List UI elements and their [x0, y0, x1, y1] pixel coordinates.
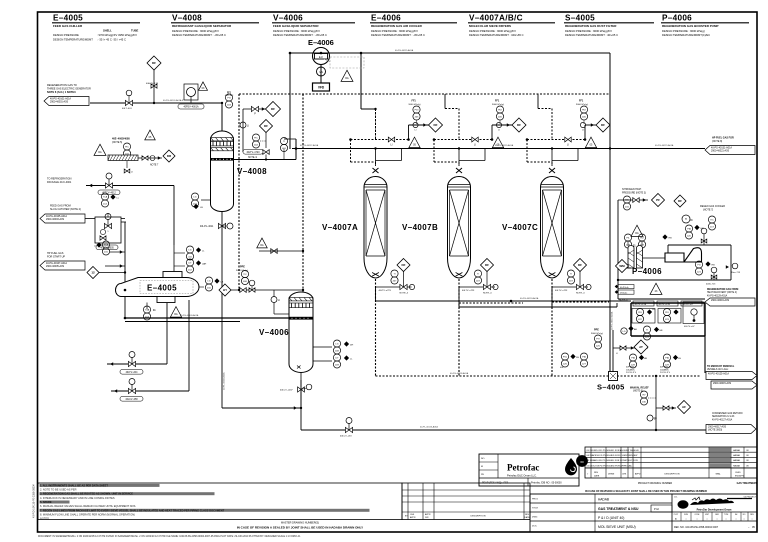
- svg-text:TGA: TGA: [145, 308, 150, 311]
- svg-text:FF1: FF1: [495, 100, 500, 103]
- wire V-4008 overhead riser: [295, 139, 297, 160]
- svg-text:DESIGN TEMPERATURE/MDMT : 34: DESIGN TEMPERATURE/MDMT : 340/+65 C: [469, 33, 524, 37]
- svg-text:REV: REV: [594, 472, 599, 474]
- svg-text:DWG: DWG: [532, 517, 538, 519]
- svg-text:XH: XH: [678, 358, 681, 360]
- svg-text:PDI: PDI: [582, 109, 586, 111]
- svg-text:2900-40015-A0S: 2900-40015-A0S: [713, 382, 731, 385]
- svg-text:XH: XH: [652, 309, 655, 311]
- instrument cluster V–4007C bottom: [574, 259, 587, 272]
- svg-text:NOTED: NOTED: [40, 517, 49, 521]
- svg-text:TCA: TCA: [103, 195, 108, 198]
- svg-text:DA: DA: [174, 313, 178, 316]
- svg-text:FF1: FF1: [579, 100, 584, 103]
- feed inlet stub to E-4005: [124, 289, 127, 292]
- svg-text:NOTE–4: NOTE–4: [483, 293, 492, 295]
- svg-text:E‑F: E‑F: [319, 55, 324, 59]
- svg-text:DF: DF: [264, 124, 268, 128]
- equipment header E-4005: [52, 14, 140, 42]
- wire bottoms cross line: [222, 407, 301, 409]
- svg-text:GAS TREATMENT: GAS TREATMENT: [737, 482, 758, 485]
- svg-text:DF: DF: [485, 263, 489, 267]
- svg-text:PPE: PPE: [240, 266, 245, 269]
- svg-text:PetroDar Development Oman: PetroDar Development Oman: [697, 508, 732, 511]
- svg-text:40LTV–x723: 40LTV–x723: [379, 290, 392, 292]
- svg-text:DOCUMENT: IN SAFEKEEPING/No. 2: DOCUMENT: IN SAFEKEEPING/No. 2 ON 2020/1…: [38, 535, 301, 538]
- svg-text:40-PG-40129-A01A: 40-PG-40129-A01A: [707, 294, 728, 297]
- diamond WM pump: [616, 260, 629, 273]
- node branch to flare diamond: [153, 63, 155, 103]
- svg-text:2900-40021-A0S: 2900-40021-A0S: [711, 150, 729, 153]
- svg-text:PPE: PPE: [594, 329, 599, 332]
- svg-text:DESIGN PRESSURE : 90: DESIGN PRESSURE : 9000 kPa(g)/FV: [371, 29, 418, 33]
- svg-text:40LTV–1720: 40LTV–1720: [247, 152, 261, 154]
- instrument cluster adsorber top: [526, 100, 610, 167]
- svg-text:NO.: NO.: [481, 458, 485, 460]
- svg-text:40PSV–4001A: 40PSV–4001A: [183, 106, 199, 109]
- svg-text:SEPARATOR 2x-V-03: SEPARATOR 2x-V-03: [712, 415, 735, 418]
- wire refrigeration return line: [107, 363, 167, 365]
- svg-text:: 9700 kPa(g)/FV 4950 kPa(g): : 9700 kPa(g)/FV 4950 kPa(g)/FV: [97, 33, 137, 37]
- svg-text:: -35 /+ 45 C -35 / +45 C: : -35 /+ 45 C -35 / +45 C: [97, 37, 126, 41]
- wire V-4008 demister line: [234, 159, 297, 161]
- svg-text:NOTE–4: NOTE–4: [576, 293, 585, 295]
- svg-text:REGENERATION GAS BOOSTER PUMP: REGENERATION GAS BOOSTER PUMP: [662, 24, 718, 28]
- VFD box: [320, 76, 322, 83]
- approval strip table: [402, 483, 530, 520]
- manifold right cell valve: [683, 302, 704, 324]
- V-4006 top inlet valves: [219, 238, 304, 314]
- svg-text:THREE GAS ELECTRIC GENERATOR: THREE GAS ELECTRIC GENERATOR: [47, 88, 91, 91]
- valve V-4006 bottoms: [300, 373, 302, 380]
- svg-text:40LCV–058: 40LCV–058: [125, 399, 138, 401]
- wire condensate header: [301, 429, 706, 431]
- instrument LG on inlet: [621, 328, 627, 334]
- svg-text:HADAB: HADAB: [733, 449, 741, 452]
- svg-text:DH: DH: [350, 345, 354, 347]
- instrument TGA below E-4005: [146, 303, 148, 310]
- instrument pair below TCV: [101, 193, 108, 200]
- Petrofac droplet logo: [565, 458, 577, 475]
- label boxes manifold: [633, 301, 654, 306]
- svg-text:NOTE–5: NOTE–5: [619, 300, 628, 302]
- svg-text:LG: LG: [189, 249, 192, 251]
- svg-text:IN CASE OF REVISION A SEALED B: IN CASE OF REVISION A SEALED BY JOINT SH…: [585, 489, 707, 493]
- svg-text:40LCV–x07: 40LCV–x07: [683, 304, 694, 306]
- valve gauge glass: [240, 122, 246, 128]
- instrument LG bridle V-4006 upper: [313, 346, 332, 348]
- svg-text:2900-40005-A0S: 2900-40005-A0S: [46, 265, 64, 268]
- svg-text:UNIT: UNIT: [705, 514, 709, 516]
- svg-text:40-PG-40127-A01A: 40-PG-40127-A01A: [712, 418, 733, 421]
- instrument cluster adsorber top: [349, 100, 442, 167]
- valve hand valve on inlet: [122, 90, 133, 110]
- svg-text:40-PG-40121-A01A: 40-PG-40121-A01A: [655, 144, 674, 147]
- svg-text:40LTV–x17B: 40LTV–x17B: [659, 304, 671, 306]
- blowdown station cluster: [94, 130, 175, 173]
- svg-text:Petrofac JOB NO : 05-00000: Petrofac JOB NO : 05-00000: [531, 482, 562, 485]
- instrument PIA pump top: [685, 225, 692, 232]
- instrument HIC right riser: [623, 196, 630, 203]
- vessel V–4007A: [364, 168, 387, 278]
- svg-text:HEAT RECOVERY (NOTE 4): HEAT RECOVERY (NOTE 4): [707, 291, 737, 294]
- instrument TI on overhead: [280, 138, 287, 145]
- svg-text:DESIGN TEMPERATURE/MDMT: DESIGN TEMPERATURE/MDMT: [53, 37, 93, 41]
- wire E-4006 outlet header: [290, 52, 610, 54]
- valve overhead isolation: [251, 106, 258, 111]
- equipment header V–4008: [171, 14, 259, 38]
- svg-text:MANUAL RELIEF: MANUAL RELIEF: [630, 387, 649, 390]
- svg-text:CHK: CHK: [622, 474, 627, 476]
- wire traced drop to V-4006: [302, 94, 304, 292]
- vessel V-4006: [289, 292, 313, 373]
- svg-text:40HCV–172: 40HCV–172: [146, 83, 159, 85]
- svg-text:MOL SIEVE UNIT (MSU): MOL SIEVE UNIT (MSU): [598, 525, 636, 529]
- svg-text:PACKAGE 40-K-4001: PACKAGE 40-K-4001: [47, 181, 72, 184]
- svg-text:40xx–713: 40xx–713: [731, 272, 741, 274]
- wire jog to V-4007C feed: [537, 94, 539, 109]
- wire product line to flag: [704, 336, 706, 373]
- svg-text:40-PG-40120-A01A: 40-PG-40120-A01A: [520, 297, 539, 300]
- svg-text:DF: DF: [434, 123, 438, 127]
- svg-text:REFRIGERANT GAS/LIQUID SEPARAT: REFRIGERANT GAS/LIQUID SEPARATOR: [172, 24, 232, 28]
- instrument PIC pair: [252, 134, 259, 141]
- Petrofac title box: [479, 454, 579, 486]
- svg-text:AF: AF: [682, 405, 686, 409]
- wire S-4005 branch: [612, 330, 614, 372]
- vessel V–4007C: [541, 168, 564, 278]
- svg-text:A1: A1: [675, 517, 677, 520]
- svg-text:E–4006: E–4006: [371, 14, 401, 23]
- svg-text:DIR: DIR: [425, 517, 429, 519]
- svg-text:LG: LG: [623, 331, 626, 333]
- svg-text:DA: DA: [345, 77, 349, 80]
- svg-text:GAS TREATMENT & NSU: GAS TREATMENT & NSU: [598, 507, 639, 511]
- svg-text:TCA: TCA: [104, 243, 109, 246]
- svg-text:HADAB: HADAB: [733, 464, 741, 467]
- svg-text:CONDENSED GAS RETURN: CONDENSED GAS RETURN: [712, 412, 743, 415]
- svg-text:FEED GAS/LIQUID SEPARATOR: FEED GAS/LIQUID SEPARATOR: [273, 24, 319, 28]
- svg-text:PDI: PDI: [665, 312, 669, 314]
- svg-text:CHK: CHK: [410, 514, 415, 516]
- svg-text:DF: DF: [578, 263, 582, 267]
- flag second DF diamond: [260, 120, 273, 133]
- svg-text:DESIGN TEMPERATURE/MDMT : 40: DESIGN TEMPERATURE/MDMT : 40/+65 C: [565, 33, 618, 37]
- svg-text:LG: LG: [194, 196, 197, 198]
- title block: [530, 494, 757, 532]
- svg-text:V–4007B: V–4007B: [402, 223, 438, 232]
- svg-text:12: 12: [91, 271, 95, 275]
- svg-text:TUBE: TUBE: [131, 29, 139, 33]
- wire adsorber outlet header 1: [376, 300, 632, 302]
- svg-text:FF1: FF1: [227, 93, 232, 95]
- wire jog to V-4007B feed: [444, 94, 446, 109]
- svg-text:02 03OCT09 FD P5 ISSUED: 02 03OCT09 FD P5 ISSUED FOR APPROVAL: [587, 464, 633, 467]
- svg-text:(NOTE 3000): (NOTE 3000): [708, 429, 722, 432]
- svg-text:40LCV–4011: 40LCV–4011: [200, 226, 214, 228]
- svg-text:101A/B/C: 101A/B/C: [626, 368, 635, 371]
- svg-text:E–4005: E–4005: [53, 14, 83, 23]
- instrument PG discharge: [695, 261, 702, 268]
- svg-text:REF. NO. 104135-PE-2358-00004: REF. NO. 104135-PE-2358-00004 0007: [674, 526, 719, 529]
- svg-text:PRESSURE (NOTE 3): PRESSURE (NOTE 3): [622, 191, 646, 194]
- svg-text:DESIGN PRESSURE : 90: DESIGN PRESSURE : 9000 kPa(g): [662, 29, 705, 33]
- svg-text:PIC: PIC: [125, 146, 129, 148]
- svg-text:V–4008: V–4008: [172, 14, 202, 23]
- wire right main riser: [609, 53, 611, 372]
- svg-text:DF: DF: [152, 61, 156, 65]
- svg-text:9000 kPa(g): 9000 kPa(g): [591, 333, 603, 335]
- line from box to refrig: [121, 221, 126, 223]
- svg-text:TO MERCURY REMOVAL: TO MERCURY REMOVAL: [707, 365, 735, 368]
- svg-text:DESIGN PRESSURE : 90: DESIGN PRESSURE : 9000 kPa(g)/FV: [172, 29, 219, 33]
- instrument LIT bridle V-4006 lower: [313, 360, 332, 362]
- diamond DF near pump: [674, 195, 686, 207]
- discharge check to riser: [726, 265, 729, 269]
- svg-text:DRWN: DRWN: [608, 474, 615, 476]
- svg-text:4006–713: 4006–713: [706, 284, 716, 286]
- notes block: [38, 483, 402, 521]
- svg-text:DESIGN TEMPERATURE/MDMT : -4: DESIGN TEMPERATURE/MDMT : -45/+65 C: [371, 33, 425, 37]
- svg-text:E–4006: E–4006: [308, 38, 334, 47]
- svg-text:2900-40003-A0S: 2900-40003-A0S: [46, 218, 64, 221]
- instrument pair left of E-4005: [102, 241, 109, 248]
- wire to refrigeration package: [86, 185, 174, 187]
- svg-text:ENG APPD: ENG APPD: [735, 475, 745, 478]
- svg-text:HADAB: HADAB: [598, 498, 609, 502]
- svg-text:2OO3–X V: 2OO3–X V: [660, 372, 671, 374]
- PetroDar logo box: [672, 497, 757, 513]
- svg-text:(NOTE 7): (NOTE 7): [703, 208, 713, 211]
- svg-text:40LCV–x33: 40LCV–x33: [340, 436, 352, 438]
- svg-text:V–4006: V–4006: [259, 328, 289, 337]
- wire V-4006 bottoms drop: [300, 380, 302, 430]
- pump P-4006 body: [618, 245, 731, 280]
- svg-text:DESIGN TEMPERATURE/MDMT : -4: DESIGN TEMPERATURE/MDMT : -45/+65 C: [172, 33, 226, 37]
- vessel V–4007B: [448, 168, 471, 278]
- svg-text:HADAB: HADAB: [733, 454, 741, 457]
- svg-text:CO.: CO.: [674, 497, 678, 499]
- valve V-4008 bottoms LCV: [218, 223, 225, 228]
- svg-text:(NOTE 5): (NOTE 5): [112, 141, 122, 144]
- flag N2 diamond: [652, 194, 665, 207]
- svg-text:40-PG-40119-A01A: 40-PG-40119-A01A: [495, 144, 514, 147]
- svg-text:MOLECULAR SIEVE DRYERS: MOLECULAR SIEVE DRYERS: [469, 24, 511, 28]
- svg-text:PG: PG: [227, 97, 230, 99]
- valve refrig supply LCV: [128, 388, 135, 393]
- svg-text:TIC: TIC: [710, 219, 714, 221]
- svg-text:P–4006: P–4006: [632, 267, 662, 276]
- svg-text:40-PG-40122-A01A: 40-PG-40122-A01A: [611, 311, 614, 330]
- svg-text:S–4005: S–4005: [597, 383, 625, 392]
- instrument cluster V–4007B bottom: [481, 259, 494, 272]
- svg-text:REGENERATION GAS DUST FILTER: REGENERATION GAS DUST FILTER: [565, 24, 617, 28]
- instrument TI pair right: [682, 215, 690, 223]
- svg-text:CODE: CODE: [695, 514, 701, 516]
- instrument TI bottom header: [643, 326, 650, 333]
- svg-text:40-PID-104135-PE-2358-00004: 40-PID-104135-PE-2358-00004: [33, 484, 36, 518]
- feed heater box: [95, 217, 121, 243]
- svg-text:40-PG-40117-A01A: 40-PG-40117-A01A: [300, 144, 319, 147]
- svg-text:REV: REV: [525, 514, 530, 516]
- svg-text:XH: XH: [576, 357, 579, 359]
- svg-text:40LTV–x723: 40LTV–x723: [462, 290, 475, 292]
- wire feed riser to V-4008: [221, 103, 223, 131]
- svg-text:VFD: VFD: [318, 86, 325, 90]
- svg-text:40-PG-40125-A01A: 40-PG-40125-A01A: [708, 373, 729, 376]
- svg-text:DESCRIPTION: DESCRIPTION: [665, 474, 680, 476]
- svg-text:4. INTERLOCK IS NECESSARY AND: 4. INTERLOCK IS NECESSARY AND IN LINE CO…: [40, 496, 115, 500]
- valve refrig return LTV: [128, 361, 135, 366]
- svg-text:DF: DF: [271, 107, 275, 111]
- svg-text:9000 kPa(g): 9000 kPa(g): [576, 104, 588, 106]
- wire feed to junction: [121, 218, 125, 220]
- svg-text:60: 60: [580, 460, 584, 464]
- svg-text:DF: DF: [402, 263, 406, 267]
- instrument pairs pump suction: [624, 234, 631, 241]
- equipment header V–4007A/B/C: [468, 14, 555, 38]
- svg-text:PEUP (FES / WQ) - FES: PEUP (FES / WQ) - FES: [482, 482, 509, 485]
- svg-text:PDI: PDI: [638, 312, 642, 314]
- svg-text:DESCRIPTION: DESCRIPTION: [471, 516, 486, 518]
- svg-text:40LTV–x723: 40LTV–x723: [555, 290, 568, 292]
- svg-text:04 25APR10 FD P5 ISSUED: 04 25APR10 FD P5 ISSUED FOR CLIENT REVIE…: [587, 454, 639, 457]
- svg-text:PIA: PIA: [665, 356, 669, 359]
- node regen header junction loops: [375, 149, 377, 156]
- wire traced drop to V-4007A: [375, 109, 377, 140]
- valve TCV on refrig line: [105, 183, 112, 188]
- wire N2 line to pump: [618, 199, 648, 201]
- svg-text:CHKD: CHKD: [735, 472, 741, 474]
- svg-text:APPR: APPR: [410, 516, 416, 519]
- svg-text:P & I D (UNIT 40): P & I D (UNIT 40): [598, 516, 624, 520]
- svg-text:NOTE–4: NOTE–4: [400, 293, 409, 295]
- relief valve station PSV-4001: [178, 82, 208, 109]
- vessel V-4008: [211, 131, 234, 212]
- wire V-4008 feed drop: [221, 211, 223, 408]
- instrument cluster V–4007A bottom: [397, 259, 410, 272]
- wire V-4006 feed line: [125, 317, 289, 319]
- motor VS circle: [320, 65, 322, 77]
- svg-text:FOR START UP: FOR START UP: [47, 256, 65, 259]
- svg-text:NOTE 6 (S.O.) 1 NOTE3: NOTE 6 (S.O.) 1 NOTE3: [47, 90, 76, 94]
- svg-text:40PSHX 2: 40PSHX 2: [660, 367, 671, 369]
- svg-text:V–4007A: V–4007A: [322, 223, 358, 232]
- svg-text:DA: DA: [98, 151, 102, 154]
- svg-text:FEED GAS CHILLER: FEED GAS CHILLER: [53, 24, 83, 28]
- svg-text:2900-4x: 2900-4x: [620, 292, 627, 294]
- svg-text:TI: TI: [685, 218, 687, 221]
- instrument pair second: [580, 353, 587, 360]
- svg-text:8. MINIMUM FLOW LINE SHALL OP: 8. MINIMUM FLOW LINE SHALL OPERATE PER N…: [40, 512, 135, 516]
- svg-text:9000 kPa(g): 9000 kPa(g): [492, 104, 504, 106]
- wire traced jogs at bottoms: [459, 302, 523, 304]
- triangle DA note: [341, 70, 353, 81]
- svg-text:40-PG-4x: 40-PG-4x: [620, 287, 629, 289]
- svg-text:APPD: APPD: [635, 473, 641, 476]
- diamond 12 note: [87, 267, 99, 279]
- instrument pair XH left: [561, 353, 568, 360]
- svg-text:40PI–402: 40PI–402: [225, 95, 234, 97]
- reference number table: [672, 512, 757, 529]
- svg-text:DESIGN PRESSURE : 90: DESIGN PRESSURE : 9000 kPa(g)/FV: [565, 29, 612, 33]
- svg-text:2900-40001-A0S: 2900-40001-A0S: [50, 101, 68, 104]
- wire regeneration gas header: [292, 148, 705, 150]
- pump suction strainers: [618, 241, 668, 268]
- flag flare diamond DF: [147, 56, 161, 70]
- svg-text:APPR: APPR: [425, 513, 431, 516]
- svg-text:SLUG CATCHER (NOTE 2): SLUG CATCHER (NOTE 2): [50, 208, 81, 211]
- svg-text:6. MANUAL RELIEF VALVES SHALL: 6. MANUAL RELIEF VALVES SHALL REMAIN CLO…: [40, 504, 136, 508]
- equipment header S–4005: [564, 14, 654, 38]
- valve vent on pump loop: [701, 228, 707, 234]
- svg-text:PIC: PIC: [254, 137, 258, 139]
- flag feed gas inlet: [44, 97, 89, 106]
- wire traced feed header (dashed): [239, 93, 610, 95]
- svg-text:REGENERATION GAS AIR COOLER: REGENERATION GAS AIR COOLER: [371, 24, 423, 28]
- svg-text:VS: VS: [319, 70, 323, 74]
- triangle DA below E-4005: [170, 307, 181, 318]
- instrument LG bridle V-4008: [201, 199, 211, 201]
- svg-text:V–4007C: V–4007C: [502, 223, 538, 232]
- svg-text:HB: HB: [712, 265, 716, 267]
- svg-text:M: M: [481, 466, 483, 468]
- flag overhead DF diamond: [266, 102, 281, 117]
- svg-text:DATE: DATE: [524, 516, 530, 519]
- svg-text:V–4008: V–4008: [237, 167, 267, 176]
- svg-text:2OO3–X V: 2OO3–X V: [626, 372, 637, 374]
- svg-text:PIA: PIA: [582, 355, 586, 358]
- svg-text:05 29JUN10 FD P5 ISSUED: 05 29JUN10 FD P5 ISSUED FOR AS BUILT DES…: [587, 449, 639, 452]
- svg-text:Petrofac: Petrofac: [507, 463, 539, 473]
- instrument PI pair at V-4008 feed: [225, 94, 232, 101]
- black marker circle: [577, 456, 588, 467]
- wire traced drop left: [238, 94, 240, 290]
- svg-text:DESIGN PRESSURE: DESIGN PRESSURE: [53, 33, 79, 37]
- svg-text:LP: LP: [654, 419, 657, 421]
- wire refrigeration supply line: [111, 390, 189, 392]
- svg-text:DATE: DATE: [594, 475, 600, 478]
- svg-text:DESIGN TEMPERATURE/MDMT : -4: DESIGN TEMPERATURE/MDMT : -45/+65 C: [273, 33, 327, 37]
- svg-text:PF: PF: [656, 198, 660, 202]
- svg-text:NOTE 7: NOTE 7: [150, 165, 159, 167]
- instrument pairs above E-4005: [173, 245, 175, 272]
- svg-text:MASTER DRAWING NUMBER(S): MASTER DRAWING NUMBER(S): [281, 521, 319, 524]
- svg-text:PDI: PDI: [498, 109, 502, 111]
- svg-text:(NOTE 8): (NOTE 8): [712, 140, 722, 143]
- svg-text:40LTV–x17A: 40LTV–x17A: [635, 303, 647, 306]
- svg-text:LG: LG: [336, 343, 339, 345]
- svg-text:HADAB: HADAB: [733, 459, 741, 462]
- svg-text:PIA: PIA: [687, 227, 691, 230]
- svg-text:SEAL: SEAL: [715, 473, 721, 476]
- svg-text:Petrofac E&C Oman LLC.: Petrofac E&C Oman LLC.: [507, 473, 537, 477]
- svg-text:40LCV–x007: 40LCV–x007: [280, 390, 293, 392]
- svg-text:HV: HV: [642, 394, 646, 396]
- valve pump discharge: [711, 267, 717, 273]
- svg-text:PDI: PDI: [415, 109, 419, 111]
- svg-text:9000 kPa(g): 9000 kPa(g): [409, 104, 421, 106]
- exchanger E-4005 kettle: [116, 272, 200, 303]
- svg-text:WM: WM: [619, 264, 625, 268]
- svg-text:40-PG-40115-A01A: 40-PG-40115-A01A: [395, 49, 414, 52]
- svg-text:40-PL-40123-A01A: 40-PL-40123-A01A: [420, 426, 438, 429]
- svg-text:DOC: DOC: [532, 526, 537, 528]
- svg-text:DA: DA: [260, 244, 264, 247]
- svg-text:40-PG-40109-A01A: 40-PG-40109-A01A: [180, 314, 199, 317]
- callout dashed box: [330, 57, 364, 68]
- svg-text:PLOT: PLOT: [674, 514, 678, 516]
